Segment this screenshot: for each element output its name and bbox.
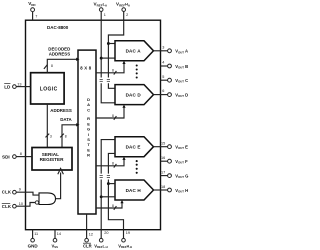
svg-text:8: 8 (112, 69, 114, 73)
svg-text:8: 8 (20, 152, 22, 156)
svg-text:16: 16 (161, 156, 165, 160)
AND gate clock (39, 193, 56, 205)
data bus register to DAC A (96, 63, 124, 73)
junction dot DAC H lower (100, 195, 103, 198)
svg-text:CLR: CLR (83, 243, 92, 248)
svg-text:VOUT A: VOUT A (175, 49, 188, 55)
CLK terminal pin 9 (2, 187, 39, 195)
svg-text:VREFL-H: VREFL-H (94, 243, 107, 249)
svg-text:DATA: DATA (60, 117, 72, 122)
data bus register to DAC D (96, 107, 124, 118)
VOUT G output pin 17 (161, 170, 189, 179)
LOGIC block U-logic (31, 73, 65, 104)
svg-text:18: 18 (161, 185, 165, 189)
svg-text:2: 2 (126, 13, 128, 17)
svg-text:10: 10 (19, 202, 23, 206)
SDI terminal pin 8 (2, 152, 32, 159)
DAC D (115, 85, 154, 105)
svg-text:VOUT B: VOUT B (175, 64, 188, 70)
svg-text:8: 8 (51, 64, 53, 68)
VREFL A terminal pin 1 (94, 2, 108, 21)
svg-text:GND: GND (28, 244, 39, 249)
svg-text:1: 1 (104, 13, 106, 17)
VREFL bus top (pin 1) (100, 20, 102, 77)
VREFL EH terminal pin 20 (94, 230, 108, 249)
VOUT H output pin 18 (154, 185, 189, 194)
svg-text:SDI: SDI (2, 155, 10, 160)
CLKB terminal pin 10 (2, 201, 39, 209)
svg-text:11: 11 (34, 232, 38, 236)
VREFH bus bottom (pin 19) (108, 180, 123, 230)
bus slash 8 data (60, 134, 64, 138)
svg-text:CLK: CLK (2, 204, 12, 209)
svg-text:6: 6 (162, 89, 164, 93)
svg-text:VREFLA: VREFLA (94, 2, 108, 8)
8x8 DAC register block (78, 50, 96, 214)
ellipsis dots between DAC E and DAC H (136, 160, 138, 174)
svg-text:VSS: VSS (52, 243, 59, 249)
wire decoded address LOGIC to register (47, 59, 76, 72)
VOUT D output pin 6 (154, 89, 189, 98)
svg-text:VREFH-H: VREFH-H (118, 243, 132, 249)
CLR wire register to pin 12 (86, 214, 88, 238)
VDD terminal pin 7 (28, 1, 37, 20)
svg-text:VOUT F: VOUT F (175, 159, 188, 165)
GND terminal pin 11 (28, 230, 39, 249)
svg-text:VDD: VDD (28, 1, 36, 7)
data bus register to DAC H (96, 202, 122, 208)
VOUT B output pin 4 (161, 61, 189, 70)
VREFH A terminal pin 2 (116, 2, 131, 21)
svg-text:DAC D: DAC D (126, 92, 142, 97)
SERIAL REGISTER block (32, 148, 72, 171)
VREFH bus top (pin 2) (108, 20, 123, 77)
VSS terminal pin 14 (52, 230, 62, 249)
svg-text:9: 9 (19, 187, 21, 191)
ellipsis dots between DAC A and DAC D (136, 64, 138, 78)
DAC H (115, 180, 154, 200)
wire address serial reg to logic (46, 104, 48, 148)
LD terminal pin 13 (4, 83, 30, 90)
svg-text:12: 12 (89, 232, 93, 236)
svg-text:ADDRESS: ADDRESS (49, 51, 71, 56)
svg-text:15: 15 (161, 142, 165, 146)
svg-text:7: 7 (35, 14, 37, 18)
svg-text:8: 8 (65, 134, 67, 138)
VOUT E output pin 15 (154, 142, 189, 151)
VOUT F output pin 16 (161, 156, 189, 165)
VREFL bus bottom (pin 20) (100, 180, 102, 230)
DAC E (115, 137, 154, 157)
svg-text:8: 8 (112, 114, 114, 118)
junction dot DAC A lower (100, 57, 103, 60)
VOUT A output pin 3 (154, 45, 189, 54)
svg-text:8: 8 (112, 204, 114, 208)
VOUT C output pin 5 (161, 75, 189, 84)
svg-text:DAC-8800: DAC-8800 (47, 25, 69, 30)
data bus register to DAC E (96, 159, 124, 166)
svg-text:R: R (87, 153, 90, 158)
svg-text:LD: LD (4, 84, 11, 89)
svg-text:VOUT H: VOUT H (175, 188, 188, 194)
svg-text:DAC A: DAC A (126, 49, 142, 54)
svg-text:VOUT E: VOUT E (175, 145, 188, 151)
svg-text:14: 14 (57, 232, 61, 236)
svg-text:ADDRESS: ADDRESS (50, 108, 72, 113)
svg-text:VOUT D: VOUT D (175, 92, 188, 98)
wire data serial reg to register (62, 125, 77, 148)
svg-text:19: 19 (126, 231, 130, 235)
svg-text:LOGIC: LOGIC (40, 86, 58, 92)
bus slash 3 (46, 134, 50, 138)
bus slash 8 decoded address (44, 65, 48, 69)
chip border (26, 20, 161, 230)
junction dot DAC H upper (107, 182, 110, 185)
svg-text:8: 8 (112, 162, 114, 166)
svg-text:DAC H: DAC H (126, 188, 142, 193)
svg-text:13: 13 (17, 83, 21, 87)
DAC A (115, 41, 154, 61)
svg-text:VREFHA: VREFHA (116, 2, 131, 8)
svg-text:VOUT G: VOUT G (175, 173, 188, 179)
svg-text:DAC E: DAC E (126, 145, 141, 150)
svg-text:20: 20 (104, 231, 108, 235)
svg-text:4: 4 (162, 61, 164, 65)
svg-text:REGISTER: REGISTER (40, 157, 65, 162)
svg-text:CLK: CLK (2, 190, 12, 195)
svg-text:VOUT C: VOUT C (175, 78, 188, 84)
svg-text:8 X 8: 8 X 8 (80, 65, 91, 70)
svg-text:3: 3 (50, 134, 52, 138)
svg-text:3: 3 (162, 45, 164, 49)
svg-text:5: 5 (162, 75, 164, 79)
junction dot DAC A upper (107, 42, 110, 45)
clock gate output to serial register (56, 173, 61, 199)
VREFH EH terminal pin 19 (118, 230, 132, 249)
svg-text:C: C (87, 107, 90, 112)
svg-text:17: 17 (161, 170, 165, 174)
